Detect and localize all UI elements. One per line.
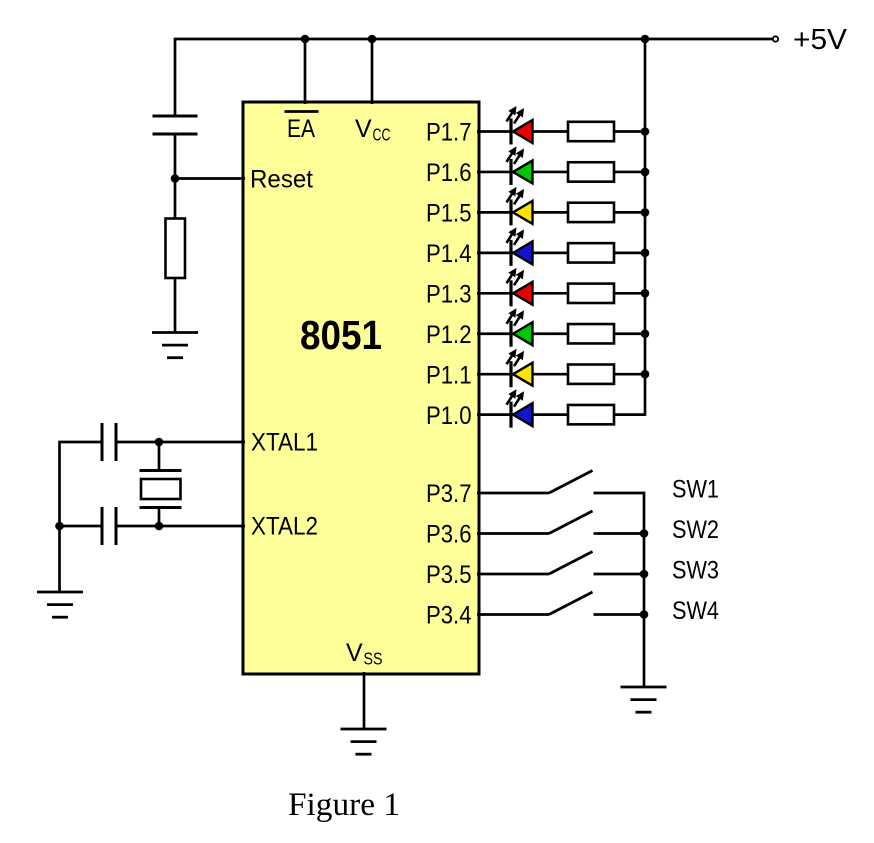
LED D5 (#e60000)	[507, 268, 533, 307]
svg-text:P1.1: P1.1	[426, 361, 472, 389]
LED D6 (#00c800)	[507, 308, 533, 347]
junction LED bus row P1.3	[641, 289, 650, 298]
wire P3.5 pin to switch SW3	[477, 573, 549, 576]
capacitor C1 (reset)	[153, 116, 198, 134]
svg-text:CC: CC	[373, 125, 391, 145]
junction LED bus row P1.7	[641, 127, 650, 136]
svg-text:Figure 1: Figure 1	[288, 787, 400, 823]
ground (oscillator)	[37, 592, 83, 617]
wire XTAL2 pin wire	[116, 525, 245, 528]
wire P3.4 pin to switch SW4	[477, 613, 549, 616]
junction LED bus row P1.5	[641, 208, 650, 217]
wire capacitor to Reset node	[174, 134, 177, 179]
wire resistor R1 to ground	[174, 278, 177, 333]
wire P3.6 pin to switch SW2	[477, 532, 549, 535]
switch SW2 arm	[549, 511, 593, 534]
resistor R6 (series for D5)	[568, 284, 614, 303]
IC U1 8051 microcontroller body	[243, 102, 479, 674]
wire P1.5 pin to LED D3	[477, 211, 568, 214]
wire resistor R9 to +5V bus	[614, 413, 645, 416]
junction ground bus row SW2	[640, 529, 649, 538]
wire XTAL1 pin wire	[116, 441, 245, 444]
junction LED bus row P1.6	[641, 168, 650, 177]
svg-text:Reset: Reset	[250, 166, 313, 194]
ground (Vss)	[341, 729, 387, 754]
svg-text:P1.6: P1.6	[426, 159, 472, 187]
LED D4 (#1414cd)	[507, 227, 533, 265]
junction ground bus row SW3	[640, 570, 649, 579]
wire left rail C2 to C3 to ground	[58, 441, 61, 592]
svg-text:XTAL2: XTAL2	[251, 513, 318, 541]
wire P3.7 pin to switch SW1	[477, 492, 549, 495]
wire P1.2 pin to LED D6	[477, 332, 568, 335]
LED D3 (#ffe400)	[507, 187, 533, 226]
wire XTAL2 left segment	[60, 525, 103, 528]
svg-text:8051: 8051	[300, 312, 382, 358]
wire +5V rail (top horizontal)	[175, 38, 772, 41]
junction LED bus row P1.2	[641, 329, 650, 338]
svg-text:SW4: SW4	[672, 597, 719, 625]
resistor R4 (series for D3)	[568, 203, 614, 222]
wire LED supply bus (vertical)	[644, 39, 647, 416]
resistor R1 (reset pull-down)	[166, 219, 186, 279]
LED D8 (#1414cd)	[507, 389, 533, 427]
svg-text:SS: SS	[364, 649, 383, 669]
wire resistor R5 to +5V bus	[614, 252, 645, 255]
junction crystal top node	[155, 438, 164, 447]
wire P1.4 pin to LED D4	[477, 252, 568, 255]
svg-text:EA: EA	[287, 115, 315, 143]
wire EA pin stub	[304, 39, 307, 104]
svg-text:P3.4: P3.4	[426, 602, 472, 630]
resistor R5 (series for D4)	[568, 243, 614, 262]
wire switch SW2 to ground bus	[594, 532, 646, 535]
svg-text:P1.2: P1.2	[426, 321, 472, 349]
wire XTAL1 left segment	[60, 441, 103, 444]
+5V open terminal	[773, 36, 778, 41]
switch SW3 arm	[549, 552, 593, 575]
junction at LED bus on +5V rail	[641, 35, 650, 44]
svg-text:P3.7: P3.7	[426, 480, 472, 508]
resistor R8 (series for D7)	[568, 365, 614, 384]
svg-text:P3.6: P3.6	[426, 521, 472, 549]
pin label Vss	[346, 639, 383, 669]
svg-text:SW3: SW3	[672, 557, 719, 585]
crystal Y1	[140, 442, 182, 526]
wire Vss pin to ground	[363, 672, 366, 729]
junction ground bus row SW4	[640, 610, 649, 619]
LED D2 (#00c800)	[507, 146, 533, 185]
svg-text:V: V	[355, 115, 372, 143]
switch SW4 arm	[549, 592, 593, 615]
resistor R2 (series for D1)	[568, 122, 614, 141]
svg-text:P1.0: P1.0	[426, 402, 472, 430]
wire P1.0 pin to LED D8	[477, 413, 568, 416]
svg-text:P1.5: P1.5	[426, 200, 472, 228]
junction crystal bottom node	[155, 522, 164, 531]
resistor R9 (series for D8)	[568, 405, 614, 424]
svg-text:V: V	[346, 639, 363, 667]
wire resistor R2 to +5V bus	[614, 130, 645, 133]
ground (switch bus)	[621, 687, 667, 712]
svg-text:SW1: SW1	[672, 476, 719, 504]
wire Vcc pin stub	[371, 39, 374, 104]
svg-text:P3.5: P3.5	[426, 561, 472, 589]
wire P1.7 pin to LED D1	[477, 130, 568, 133]
LED D1 (#e60000)	[507, 106, 533, 145]
LED D7 (#ffe400)	[507, 349, 533, 388]
wire resistor R3 to +5V bus	[614, 171, 645, 174]
wire P1.3 pin to LED D5	[477, 292, 568, 295]
svg-text:P1.7: P1.7	[426, 119, 472, 147]
capacitor C2 (XTAL1)	[102, 423, 116, 461]
switch SW1 arm	[549, 471, 593, 494]
wire resistor R4 to +5V bus	[614, 211, 645, 214]
svg-text:+5V: +5V	[793, 24, 848, 56]
junction LED bus row P1.1	[641, 370, 650, 379]
junction Reset node	[171, 174, 180, 183]
wire Reset node down to resistor R1	[174, 179, 177, 220]
wire switch SW1 to ground bus	[594, 492, 646, 495]
wire resistor R8 to +5V bus	[614, 373, 645, 376]
wire P1.6 pin to LED D2	[477, 171, 568, 174]
junction at Vcc stub on +5V rail	[368, 35, 377, 44]
svg-text:P1.3: P1.3	[426, 280, 472, 308]
wire switch SW4 to ground bus	[594, 613, 646, 616]
pin label Vcc	[355, 115, 391, 145]
wire resistor R7 to +5V bus	[614, 332, 645, 335]
pin label EA with overline	[285, 112, 319, 144]
resistor R3 (series for D2)	[568, 162, 614, 181]
wire switch ground bus (vertical)	[643, 492, 646, 687]
svg-text:SW2: SW2	[672, 516, 719, 544]
wire P1.1 pin to LED D7	[477, 373, 568, 376]
capacitor C3 (XTAL2)	[102, 507, 116, 545]
wire switch SW3 to ground bus	[594, 573, 646, 576]
junction LED bus row P1.4	[641, 249, 650, 258]
svg-text:P1.4: P1.4	[426, 240, 472, 268]
wire resistor R6 to +5V bus	[614, 292, 645, 295]
junction at EA stub on +5V rail	[301, 35, 310, 44]
ground (reset branch)	[152, 333, 198, 358]
svg-text:XTAL1: XTAL1	[251, 429, 318, 457]
junction left rail at XTAL2 level	[55, 522, 64, 531]
wire Reset node to Reset pin	[175, 177, 245, 180]
wire +5V rail down to reset capacitor	[174, 38, 177, 116]
resistor R7 (series for D6)	[568, 324, 614, 343]
